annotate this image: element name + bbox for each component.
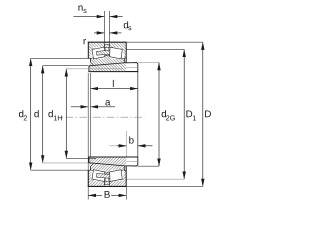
dim b — [110, 145, 153, 147]
bearing section top — [88, 42, 138, 71]
label n_s — [78, 5, 82, 10]
label B — [102, 189, 111, 198]
d_2 ref top — [31, 57, 89, 59]
dim a — [71, 106, 115, 108]
dim d_1H (left) — [65, 69, 67, 159]
label a — [105, 100, 110, 105]
label l — [112, 80, 115, 87]
D_1 ref bottom — [126, 178, 184, 180]
d ref bottom — [43, 162, 90, 164]
dim d_2G (right) — [158, 63, 160, 167]
label d_2 — [19, 110, 23, 117]
D ref bottom — [127, 185, 203, 187]
d_2G ref top — [138, 62, 159, 64]
d ref top — [43, 65, 89, 67]
d_2G ref bottom — [138, 165, 159, 167]
dim n_s — [74, 16, 123, 18]
b extension lines — [125, 131, 127, 158]
label d_s — [124, 21, 128, 28]
label d_2G — [162, 110, 166, 117]
bearing section bottom (mirrored) — [88, 157, 138, 186]
dim d_2 (left) — [30, 58, 32, 170]
dim l — [91, 88, 138, 90]
d_1H ref top (gray) — [66, 68, 122, 70]
D_1 ref top — [126, 48, 184, 50]
label r + leader — [84, 39, 86, 44]
B right extension — [125, 187, 127, 200]
label D — [205, 110, 211, 117]
left face extension through middle — [87, 112, 89, 200]
label D_1 — [186, 110, 192, 117]
d_2 ref bottom — [31, 169, 89, 171]
dim B — [88, 194, 126, 196]
d_1H ref bottom — [66, 157, 96, 159]
dim D_1 (right) — [183, 49, 185, 179]
label d_1H — [48, 110, 52, 117]
centerline — [62, 116, 145, 118]
n_s d_s extension lines — [103, 11, 105, 43]
dim D (right) — [202, 42, 204, 186]
D ref top — [127, 41, 203, 43]
label b — [129, 136, 133, 143]
a extension lines — [87, 73, 89, 112]
dim d_s — [94, 32, 122, 34]
dim d (left) — [42, 66, 44, 163]
label d — [34, 110, 38, 117]
